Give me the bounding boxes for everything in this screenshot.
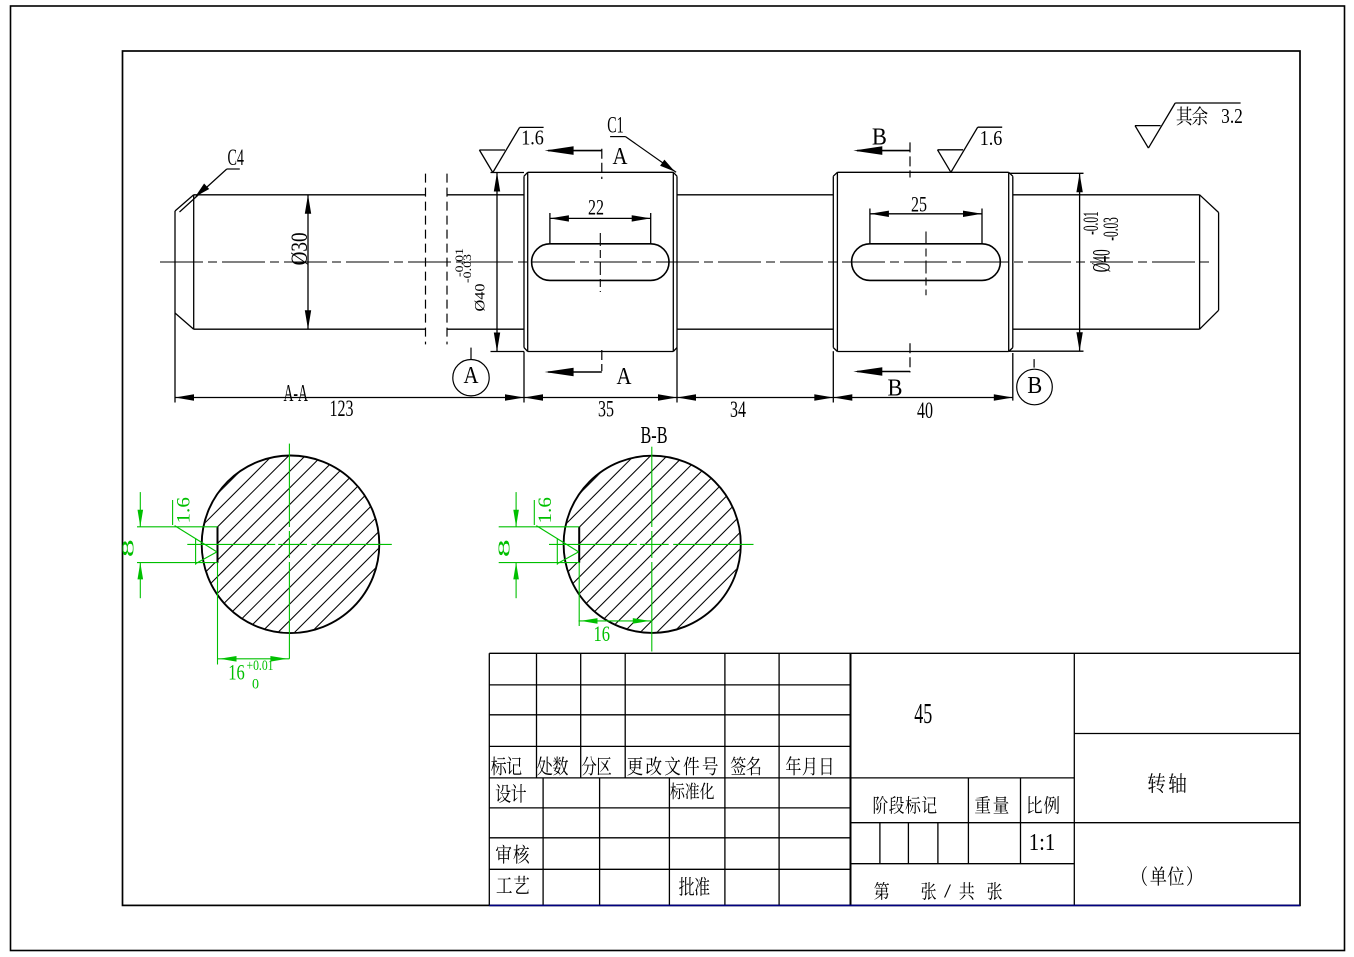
svg-text:Ø40: Ø40 [473,284,489,312]
svg-text:16: 16 [228,660,245,685]
section centerline horizontal [187,543,275,545]
keyway walls (green) [137,526,218,528]
svg-text:-0.03: -0.03 [1098,217,1123,241]
section centerline horizontal [549,543,637,545]
svg-text:35: 35 [598,397,614,423]
fullwidth parens (单位) [1142,866,1147,886]
dimension 8 (keyway width) [139,492,141,527]
title block header row texts [491,757,506,776]
svg-text:45: 45 [914,699,932,730]
svg-text:123: 123 [330,396,354,422]
svg-text:40: 40 [917,398,933,424]
svg-text:A: A [464,363,480,389]
section line A top [601,149,603,179]
1.6 extension tick [172,500,174,525]
bottom dimension chain 123 / 35 / 34 / 40 [175,313,1013,403]
inner drawing frame [123,51,1301,905]
dimension 16 (section B-B) [578,563,580,626]
svg-text:8: 8 [119,539,138,557]
svg-text:-0.03: -0.03 [460,254,474,283]
section B-B keyway flat (black) [578,527,580,563]
datum balloon B [1033,359,1035,368]
svg-text:+0.01: +0.01 [247,658,274,674]
阶段标记 / 重量 / 比例 [874,796,888,814]
chamfer leader diagonals [175,526,217,552]
chamfer leader diagonals [536,526,578,552]
sheet numbering 第 张 / 共 张 [874,882,889,900]
dimension 8 (keyway width) [515,492,517,527]
svg-text:/: / [944,881,952,903]
dimension Ø40 -0.01 -0.03 (right) [1009,173,1084,351]
svg-text:B-B: B-B [641,423,668,449]
chamfer small vertical [195,538,197,564]
dimension 16 +0.01/0 (section A-A) [217,563,219,665]
datum balloon A [470,348,472,360]
svg-text:B: B [872,125,887,151]
svg-text:25: 25 [911,192,927,217]
svg-text:B: B [1027,373,1042,399]
part name 转轴 [1148,773,1165,793]
svg-text:8: 8 [494,539,513,557]
surface finish 1.6 (block 1) [479,127,543,172]
main shaft centerline [160,261,1211,263]
dimension 25 (keyway 2 length) [870,209,982,244]
1.6 extension tick [533,500,535,525]
keyway block 1 (35 long) outline [524,172,677,351]
svg-text:22: 22 [588,195,604,220]
section A-A green annotations [137,444,392,659]
keyway slot 2 vertical centerline [925,232,927,296]
break lines [426,174,448,345]
section A-A keyway flat (black) [217,527,219,563]
section centerline vertical [288,444,290,527]
svg-text:1:1: 1:1 [1029,830,1056,856]
title block bottom edge (navy) [489,904,1300,906]
shaft left end C4 chamfer outline [175,195,524,329]
shaft Ø30 section top/bottom edges [194,194,426,196]
svg-text:A-A: A-A [283,381,308,407]
keyway slot 1 vertical centerline [599,233,601,292]
keyway walls (green) [499,526,580,528]
section line B bottom [909,343,911,372]
section line B top [909,142,911,177]
chamfer small vertical [556,538,558,564]
right end section with chamfer [1013,195,1219,329]
(单位) [1150,866,1166,886]
dimension 22 (keyway 1 length) [550,213,651,244]
svg-text:B: B [888,376,903,402]
dimension Ø30 [307,195,309,329]
section centerline vertical [651,447,653,527]
surface finish 1.6 (block 2) [938,127,1003,172]
section line A bottom [601,350,603,371]
surface finish 其余 3.2 (top right) [1135,103,1241,148]
svg-text:C4: C4 [227,145,244,171]
title block grid [489,653,1300,905]
svg-text:16: 16 [594,621,611,646]
svg-text:Ø40: Ø40 [1089,249,1116,272]
svg-text:A: A [613,144,629,170]
keyway slot 2 (25) [852,244,1001,281]
svg-text:C1: C1 [607,112,624,138]
svg-text:Ø30: Ø30 [287,232,312,265]
svg-text:34: 34 [730,397,746,423]
title block left labels [496,784,511,803]
svg-text:1.6: 1.6 [980,126,1003,150]
middle section (34) edges [677,195,833,329]
section B-B green annotations [499,447,754,652]
svg-text:3.2: 3.2 [1221,104,1243,128]
svg-text:A: A [617,364,633,390]
svg-text:1.6: 1.6 [535,497,556,523]
svg-text:1.6: 1.6 [521,125,544,149]
svg-text:0: 0 [252,677,259,693]
dimension Ø40 -0.01 -0.03 (left, block 1) [491,173,525,352]
keyway block 2 (40 long) outline [833,172,1013,351]
svg-text:1.6: 1.6 [174,497,195,523]
keyway slot 1 (22) [532,244,669,281]
